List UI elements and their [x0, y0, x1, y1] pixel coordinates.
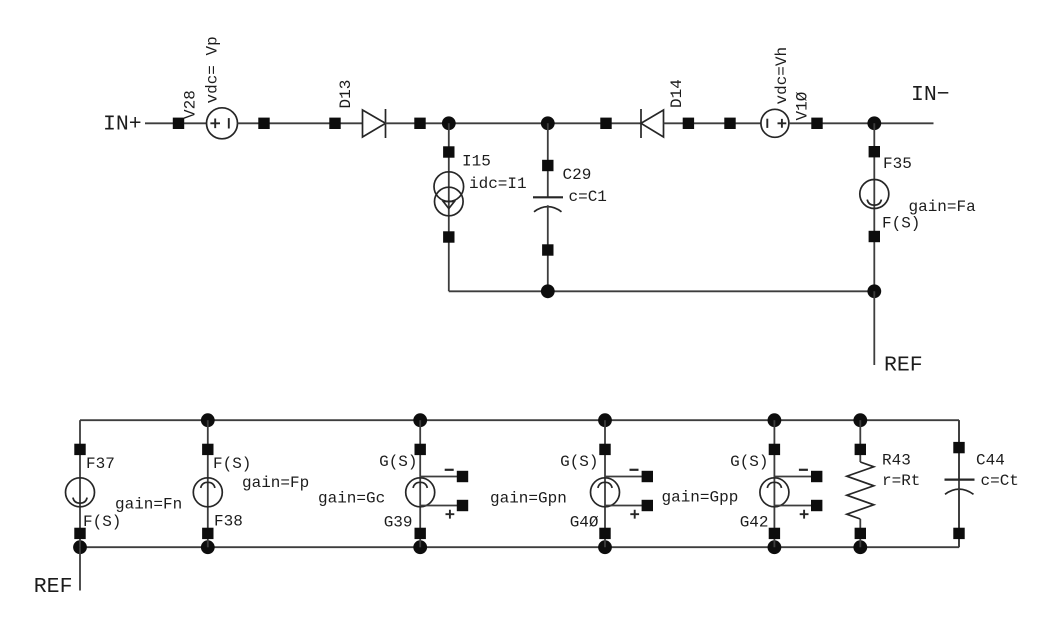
G42 arrow up	[767, 482, 781, 488]
pin of F37 bottom	[74, 528, 85, 539]
resistor R43	[847, 462, 874, 519]
wire R43 branch bottom	[859, 519, 861, 547]
svg-text:vdc= Vp: vdc= Vp	[204, 36, 222, 103]
wire C29 branch top	[547, 123, 549, 197]
G39 sense pin plus	[457, 500, 468, 511]
voltage source V28	[207, 108, 238, 139]
svg-text:F37: F37	[86, 455, 115, 473]
svg-text:V1Ø: V1Ø	[794, 91, 812, 120]
wire F37 branch	[79, 420, 81, 547]
wire C29 branch bottom	[547, 205, 549, 291]
G40 plus sign	[630, 510, 639, 519]
G39 sense pin minus	[457, 471, 468, 482]
V28 minus bar	[228, 118, 230, 128]
svg-text:G(S): G(S)	[379, 453, 417, 471]
node bottom bus x420	[413, 540, 427, 554]
node bottom bus x860	[853, 540, 867, 554]
wire F35 branch	[873, 123, 875, 291]
pin of D14 left	[600, 118, 611, 129]
wire bottom of top section	[449, 290, 875, 292]
svg-text:G4Ø: G4Ø	[570, 514, 599, 532]
current source F35	[860, 180, 889, 209]
svg-text:G42: G42	[740, 514, 769, 532]
G42 minus sign	[799, 469, 808, 471]
pin of G40 bottom	[599, 528, 610, 539]
G39 sense wire plus	[420, 505, 457, 507]
capacitor C29 bottom plate	[534, 207, 562, 212]
svg-text:gain=Fp: gain=Fp	[242, 474, 309, 492]
svg-text:gain=Gpn: gain=Gpn	[490, 490, 567, 508]
current source I15 lower circle	[435, 187, 464, 216]
vccs G40	[591, 478, 620, 507]
diode D14	[640, 109, 642, 138]
node top bus x860	[853, 413, 867, 427]
V28 plus sign	[210, 119, 220, 129]
svg-text:gain=Fa: gain=Fa	[909, 198, 977, 216]
G42 sense wire plus	[774, 505, 811, 507]
wire G42 branch	[773, 420, 775, 547]
pin of G40 top	[599, 444, 610, 455]
wire V28 to D13	[238, 122, 363, 124]
wire I15 branch	[448, 123, 450, 291]
G39 sense wire minus	[420, 476, 457, 478]
G42 plus sign	[800, 510, 809, 519]
pin of F35 bottom	[869, 231, 880, 242]
wire D14 to V10	[664, 122, 761, 124]
svg-text:F38: F38	[214, 513, 243, 531]
current source F37	[66, 478, 95, 507]
svg-text:F(S): F(S)	[882, 215, 920, 233]
node bottom bus x207	[201, 540, 215, 554]
svg-text:gain=Gpp: gain=Gpp	[662, 489, 739, 507]
pin of V28 right	[258, 118, 269, 129]
current source F38	[193, 478, 222, 507]
wire V10 to IN-	[789, 122, 934, 124]
svg-text:c=Ct: c=Ct	[981, 472, 1019, 490]
pin of V28 left	[173, 118, 184, 129]
bus wire bottom	[80, 546, 959, 548]
pin of F35 top	[869, 146, 880, 157]
svg-text:V28: V28	[182, 90, 200, 119]
voltage source V10	[761, 109, 789, 137]
F35 arrow down	[867, 200, 881, 206]
wire to REF top section	[873, 291, 875, 365]
G40 sense pin plus	[642, 500, 653, 511]
V10 plus sign	[778, 119, 787, 128]
pin of I15 bottom	[443, 231, 454, 242]
svg-text:I15: I15	[462, 153, 491, 171]
wire C44 branch top	[958, 420, 960, 479]
pin of C44 bottom	[953, 528, 964, 539]
svg-text:idc=I1: idc=I1	[469, 175, 527, 193]
diode D13	[363, 110, 386, 137]
svg-text:F(S): F(S)	[213, 455, 251, 473]
svg-text:G(S): G(S)	[730, 453, 768, 471]
svg-text:IN+: IN+	[103, 113, 142, 137]
pin of I15 top	[443, 146, 454, 157]
F38 arrow up	[201, 482, 215, 488]
G40 arrow up	[598, 482, 612, 488]
wire to REF bottom section	[79, 547, 81, 590]
current source I15 upper circle	[434, 172, 464, 202]
pin of D13 left	[329, 118, 340, 129]
capacitor C44 bottom plate	[945, 489, 974, 494]
svg-text:gain=Fn: gain=Fn	[115, 496, 182, 514]
node top bus x420	[413, 413, 427, 427]
node IN- junction	[867, 116, 881, 130]
wire G40 branch	[604, 420, 606, 547]
pin of F37 top	[74, 444, 85, 455]
G42 sense pin minus	[811, 471, 822, 482]
G39 arrow up	[413, 482, 427, 488]
G40 sense pin minus	[642, 471, 653, 482]
G42 sense wire minus	[774, 476, 811, 478]
wire D13 to D14	[386, 122, 642, 124]
svg-text:F(S): F(S)	[83, 513, 121, 531]
pin of V10 left	[724, 118, 735, 129]
svg-text:C29: C29	[563, 166, 592, 184]
svg-text:REF: REF	[884, 354, 923, 378]
capacitor C29 top plate	[533, 196, 563, 198]
pin of R43 bottom	[855, 528, 866, 539]
pin of C29 top	[542, 160, 553, 171]
wire C44 branch bottom	[958, 488, 960, 548]
pin of C29 bottom	[542, 244, 553, 255]
I15 arrow head	[443, 202, 454, 209]
svg-text:IN−: IN−	[911, 83, 950, 107]
pin of V10 right	[811, 118, 822, 129]
G39 plus sign	[446, 510, 455, 519]
svg-text:c=C1: c=C1	[569, 188, 607, 206]
pin of G39 top	[415, 444, 426, 455]
node top bus x774	[768, 413, 782, 427]
node F35 bottom	[867, 284, 881, 298]
wire G39 branch	[419, 420, 421, 547]
node bottom bus x774	[768, 540, 782, 554]
node at I15 branch	[442, 116, 456, 130]
svg-text:r=Rt: r=Rt	[882, 472, 920, 490]
wire F38 branch	[207, 420, 209, 547]
node top bus x605	[598, 413, 612, 427]
svg-text:G(S): G(S)	[560, 453, 598, 471]
node at C29 branch	[541, 116, 555, 130]
svg-text:G39: G39	[384, 514, 413, 532]
pin of R43 top	[855, 444, 866, 455]
pin of D14 right	[683, 118, 694, 129]
G39 minus sign	[445, 469, 454, 471]
bus wire right edge	[958, 420, 960, 547]
svg-text:R43: R43	[882, 452, 911, 470]
svg-text:D14: D14	[668, 79, 686, 108]
node bottom bus x80	[73, 540, 87, 554]
pin of F38 bottom	[202, 528, 213, 539]
pin of G42 top	[769, 444, 780, 455]
capacitor C44 top plate	[945, 479, 975, 481]
vccs G42	[760, 478, 789, 507]
G40 sense wire plus	[605, 505, 642, 507]
svg-text:D13: D13	[337, 80, 355, 109]
G42 sense pin plus	[811, 500, 822, 511]
svg-text:C44: C44	[976, 452, 1005, 470]
wire R43 branch top	[859, 420, 861, 462]
pin of C44 top	[953, 442, 964, 453]
svg-text:REF: REF	[34, 575, 73, 599]
wire IN+ to V28	[145, 122, 207, 124]
node bottom bus x605	[598, 540, 612, 554]
G40 minus sign	[630, 469, 639, 471]
pin of G42 bottom	[769, 528, 780, 539]
G40 sense wire minus	[605, 476, 642, 478]
svg-text:vdc=Vh: vdc=Vh	[773, 47, 791, 105]
node top bus x207	[201, 413, 215, 427]
vccs G39	[406, 478, 435, 507]
pin of G39 bottom	[415, 528, 426, 539]
node C29 bottom	[541, 284, 555, 298]
pin of D13 right	[414, 118, 425, 129]
pin of F38 top	[202, 444, 213, 455]
bus wire top	[80, 419, 959, 421]
F37 arrow down	[73, 498, 87, 504]
svg-text:gain=Gc: gain=Gc	[318, 490, 385, 508]
svg-text:F35: F35	[883, 155, 912, 173]
V10 minus bar	[766, 119, 768, 128]
